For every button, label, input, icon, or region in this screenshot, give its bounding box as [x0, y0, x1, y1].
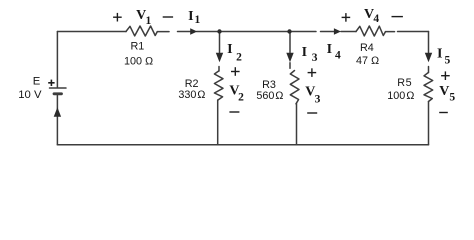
svg-text:4: 4	[373, 13, 379, 25]
svg-text:I: I	[302, 45, 307, 60]
svg-text:2: 2	[238, 92, 244, 104]
I2 arrowhead	[216, 53, 223, 63]
wire left upper (E top)	[56, 32, 58, 88]
svg-text:I: I	[188, 9, 193, 24]
plus sign V2	[231, 71, 240, 73]
svg-text:V: V	[439, 84, 449, 99]
wire R3 branch lower	[296, 104, 298, 145]
wire right branch lower	[428, 102, 430, 145]
svg-text:5: 5	[445, 55, 451, 67]
svg-text:3: 3	[315, 94, 321, 106]
svg-text:10 V: 10 V	[18, 89, 42, 101]
wire R2 branch into resistor	[218, 67, 220, 72]
battery E top plate	[50, 87, 67, 89]
svg-text:100 Ω: 100 Ω	[387, 90, 414, 102]
resistor R1	[126, 26, 157, 36]
svg-text:R2: R2	[185, 78, 199, 90]
wire R2 branch upper	[219, 33, 221, 53]
minus sign V5	[439, 112, 448, 114]
wire R3 branch stub below arrow	[289, 63, 291, 68]
minus sign V1	[163, 16, 173, 18]
resistor R2	[214, 71, 223, 100]
wire into R4	[341, 31, 356, 33]
wire after R1	[157, 31, 169, 33]
svg-text:E: E	[33, 75, 41, 87]
minus sign V4	[392, 16, 403, 18]
plus sign V3	[308, 72, 317, 74]
svg-text:R4: R4	[360, 42, 374, 54]
node A junction dot	[217, 29, 221, 33]
resistor R3	[290, 71, 299, 104]
wire bottom	[57, 144, 428, 146]
resistor R4	[356, 26, 386, 36]
plus sign battery	[48, 82, 54, 84]
battery current up arrowhead	[54, 107, 61, 117]
wire left lower (E bottom)	[56, 94, 58, 145]
svg-text:R5: R5	[397, 77, 412, 89]
wire right branch upper	[428, 32, 430, 53]
svg-text:4: 4	[335, 49, 341, 61]
svg-text:R1: R1	[130, 41, 144, 53]
plus sign V1	[113, 16, 122, 18]
svg-text:100 Ω: 100 Ω	[124, 56, 153, 68]
svg-text:47 Ω: 47 Ω	[356, 55, 379, 67]
svg-text:I: I	[327, 42, 332, 57]
svg-text:I: I	[437, 46, 442, 61]
svg-text:I: I	[227, 42, 232, 57]
battery E bottom plate	[54, 92, 62, 95]
wire top-left horizontal	[57, 31, 126, 33]
svg-text:330 Ω: 330 Ω	[178, 89, 205, 101]
wire after R4	[386, 31, 395, 33]
resistor R5	[424, 73, 433, 102]
wire I4 arrow shaft	[321, 31, 336, 33]
wire node A to node B	[197, 31, 317, 33]
I5 arrowhead	[425, 53, 432, 63]
wire right branch into R5	[428, 67, 430, 73]
svg-text:3: 3	[312, 52, 318, 64]
minus sign V3	[307, 112, 317, 114]
node B junction dot	[287, 29, 291, 33]
I3 arrowhead	[286, 53, 293, 63]
wire R2 branch lower	[217, 100, 219, 145]
svg-text:1: 1	[195, 14, 201, 26]
svg-text:1: 1	[146, 15, 152, 27]
wire I1 arrow shaft	[178, 31, 192, 33]
svg-text:R3: R3	[262, 79, 276, 91]
plus sign V5	[441, 75, 450, 77]
plus sign V4	[342, 16, 351, 18]
svg-text:5: 5	[449, 92, 455, 104]
svg-text:2: 2	[236, 51, 242, 63]
svg-text:560 Ω: 560 Ω	[256, 90, 283, 102]
I1 arrowhead	[190, 28, 197, 35]
wire to top-right corner	[398, 31, 429, 33]
wire R3 branch upper	[289, 33, 291, 53]
minus sign V2	[229, 111, 239, 113]
I4 arrowhead	[334, 28, 341, 35]
